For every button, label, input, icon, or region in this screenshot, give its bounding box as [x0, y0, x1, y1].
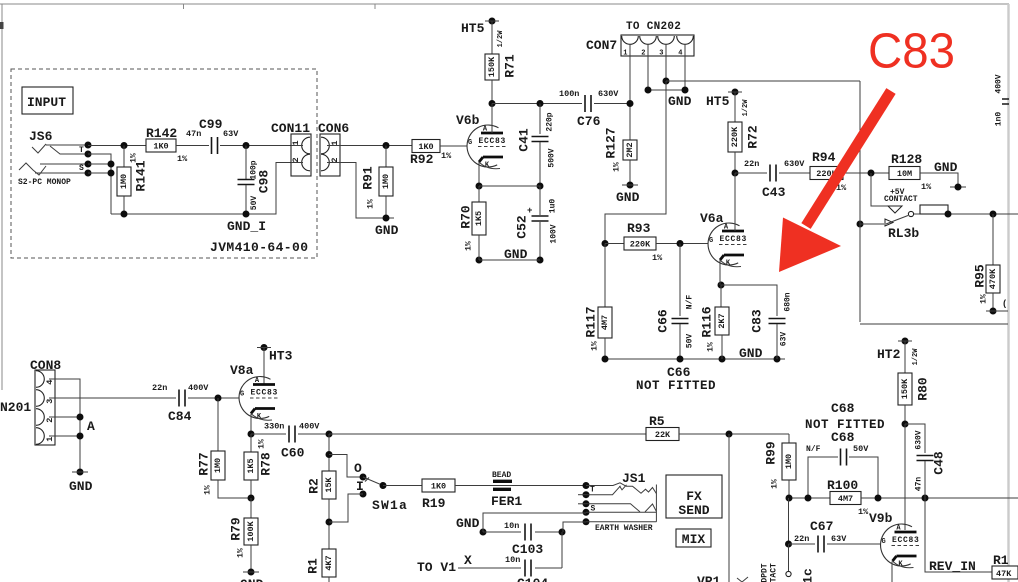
svg-text:4: 4 [45, 380, 55, 385]
svg-text:BEAD: BEAD [492, 471, 511, 480]
svg-text:HT2: HT2 [877, 347, 901, 362]
svg-text:G: G [709, 237, 713, 245]
svg-text:1M0: 1M0 [213, 458, 223, 473]
svg-text:1%: 1% [177, 154, 188, 164]
svg-text:2M2: 2M2 [625, 142, 635, 157]
svg-text:JVM410-64-00: JVM410-64-00 [210, 240, 308, 255]
svg-text:R1: R1 [306, 558, 321, 574]
svg-text:JS1: JS1 [622, 471, 646, 486]
svg-text:GND: GND [375, 223, 399, 238]
svg-text:220p: 220p [546, 112, 555, 131]
svg-text:GND: GND [240, 577, 264, 582]
svg-text:N/F: N/F [806, 445, 821, 454]
svg-text:CONTACT: CONTACT [884, 195, 918, 204]
svg-text:R19: R19 [422, 496, 446, 511]
svg-text:S: S [79, 164, 84, 173]
svg-text:C66: C66 [667, 365, 691, 380]
svg-text:63V: 63V [780, 332, 789, 347]
svg-text:400V: 400V [995, 74, 1004, 93]
svg-text:1%: 1% [237, 548, 246, 558]
svg-text:C76: C76 [577, 114, 601, 129]
svg-text:1%: 1% [258, 439, 267, 449]
svg-text:GND: GND [616, 190, 640, 205]
svg-text:150K: 150K [487, 56, 497, 77]
svg-text:1c: 1c [801, 568, 816, 582]
svg-text:1: 1 [330, 140, 340, 145]
svg-text:3: 3 [45, 399, 55, 404]
svg-text:HT5: HT5 [706, 94, 730, 109]
svg-text:400V: 400V [188, 383, 209, 393]
svg-text:C68: C68 [831, 430, 855, 445]
svg-text:1K5: 1K5 [246, 458, 256, 473]
svg-text:C104: C104 [517, 576, 548, 582]
svg-text:1/2W: 1/2W [912, 348, 920, 366]
svg-text:R2: R2 [307, 478, 322, 494]
svg-text:GND: GND [668, 94, 692, 109]
svg-text:4M7: 4M7 [600, 315, 610, 330]
svg-text:1%: 1% [367, 199, 376, 209]
svg-text:O: O [354, 461, 362, 476]
svg-text:2: 2 [641, 50, 645, 58]
svg-text:R72: R72 [746, 125, 761, 149]
svg-text:22K: 22K [655, 430, 671, 440]
svg-text:JS6: JS6 [29, 129, 53, 144]
svg-text:10n: 10n [504, 521, 519, 531]
svg-text:VR1: VR1 [697, 574, 721, 582]
svg-text:4: 4 [678, 50, 682, 58]
svg-text:GND: GND [934, 160, 958, 175]
svg-text:N201: N201 [0, 400, 31, 415]
svg-text:SW1a: SW1a [372, 498, 408, 513]
svg-text:630V: 630V [784, 159, 805, 169]
svg-text:63V: 63V [223, 129, 239, 139]
svg-text:C98: C98 [257, 170, 272, 194]
svg-text:R99: R99 [764, 441, 779, 465]
svg-text:47n: 47n [915, 477, 924, 492]
svg-text:330n: 330n [264, 422, 284, 432]
svg-text:47K: 47K [996, 569, 1012, 579]
svg-text:V6b: V6b [456, 113, 480, 128]
svg-text:100V: 100V [550, 224, 559, 243]
svg-text:R78: R78 [259, 452, 274, 476]
svg-text:4K7: 4K7 [324, 555, 334, 570]
svg-text:R94: R94 [812, 150, 836, 165]
svg-text:G: G [882, 538, 886, 546]
svg-text:1%: 1% [130, 153, 139, 163]
svg-text:C103: C103 [512, 542, 543, 557]
svg-text:1M0: 1M0 [119, 174, 129, 189]
svg-text:2: 2 [330, 157, 340, 162]
svg-text:C41: C41 [517, 128, 532, 152]
svg-text:1%: 1% [591, 341, 600, 351]
svg-text:A: A [87, 419, 95, 434]
svg-text:MIX: MIX [682, 532, 706, 547]
svg-text:SEND: SEND [678, 503, 709, 518]
svg-text:X: X [464, 553, 472, 568]
svg-text:1K0: 1K0 [418, 142, 433, 152]
svg-text:1n0: 1n0 [995, 112, 1004, 127]
svg-text:HT5: HT5 [461, 21, 485, 36]
svg-text:630V: 630V [598, 89, 619, 99]
svg-text:1%: 1% [980, 294, 989, 304]
svg-text:R71: R71 [503, 54, 518, 78]
svg-text:R70: R70 [459, 205, 474, 229]
svg-text:2: 2 [45, 418, 55, 423]
svg-text:C43: C43 [762, 185, 786, 200]
svg-text:DPDT: DPDT [761, 563, 770, 582]
svg-text:V9b: V9b [869, 511, 893, 526]
svg-text:FER1: FER1 [491, 494, 522, 509]
svg-text:+: + [527, 206, 532, 216]
svg-text:1%: 1% [465, 241, 474, 251]
svg-text:GND: GND [739, 346, 763, 361]
svg-text:C52: C52 [515, 215, 530, 239]
svg-text:100n: 100n [559, 89, 579, 99]
svg-text:50V: 50V [853, 444, 869, 454]
svg-text:R79: R79 [229, 517, 244, 541]
svg-text:470K: 470K [988, 268, 998, 289]
svg-text:GND: GND [69, 479, 93, 494]
svg-text:R93: R93 [627, 221, 651, 236]
svg-text:GND: GND [456, 516, 480, 531]
svg-text:R100: R100 [827, 478, 858, 493]
svg-text:R127: R127 [604, 127, 619, 158]
svg-text:N/F: N/F [686, 295, 695, 310]
svg-text:C68: C68 [831, 401, 855, 416]
svg-text:C83: C83 [750, 309, 765, 333]
svg-text:4M7: 4M7 [838, 494, 853, 504]
svg-text:R142: R142 [146, 126, 177, 141]
svg-text:500V: 500V [548, 148, 557, 167]
svg-text:C60: C60 [281, 446, 305, 461]
svg-text:15K: 15K [324, 476, 334, 492]
svg-text:EARTH WASHER: EARTH WASHER [595, 524, 653, 533]
svg-text:63V: 63V [831, 534, 847, 544]
svg-text:TO V1: TO V1 [417, 560, 456, 575]
svg-text:2K7: 2K7 [717, 313, 727, 328]
svg-text:RL3b: RL3b [888, 226, 919, 241]
svg-text:R141: R141 [134, 160, 149, 191]
svg-text:R128: R128 [891, 152, 922, 167]
svg-text:GND: GND [504, 247, 528, 262]
svg-text:V6a: V6a [700, 211, 724, 226]
svg-text:G: G [240, 391, 244, 399]
svg-text:100K: 100K [246, 520, 256, 541]
svg-text:R77: R77 [197, 452, 212, 475]
svg-text:TO CN202: TO CN202 [626, 21, 681, 33]
svg-text:1M0: 1M0 [381, 174, 391, 189]
svg-text:V8a: V8a [230, 363, 254, 378]
svg-text:1/2W: 1/2W [497, 30, 505, 48]
svg-text:3: 3 [659, 50, 663, 58]
svg-text:220K: 220K [730, 126, 740, 147]
svg-text:C48: C48 [932, 451, 947, 475]
svg-text:1: 1 [291, 140, 301, 145]
svg-text:150K: 150K [900, 378, 910, 399]
svg-text:GND_I: GND_I [227, 219, 266, 234]
svg-text:HT3: HT3 [269, 349, 293, 364]
svg-text:C83: C83 [868, 24, 955, 79]
svg-text:50V: 50V [250, 196, 259, 211]
svg-text:1%: 1% [771, 479, 780, 489]
svg-text:R116: R116 [700, 306, 715, 337]
svg-text:G: G [468, 139, 472, 147]
svg-text:FX: FX [686, 489, 702, 504]
svg-text:C99: C99 [199, 117, 223, 132]
svg-text:1%: 1% [707, 342, 716, 352]
svg-text:680n: 680n [784, 292, 793, 311]
svg-text:T: T [590, 486, 595, 495]
svg-text:C84: C84 [168, 409, 192, 424]
svg-text:CONTACT: CONTACT [770, 563, 779, 582]
svg-text:10M: 10M [897, 169, 912, 179]
svg-text:1K0: 1K0 [431, 482, 446, 492]
svg-text:1%: 1% [204, 485, 213, 495]
svg-text:1%: 1% [858, 507, 869, 517]
svg-text:CON7: CON7 [586, 38, 617, 53]
svg-text:R80: R80 [916, 377, 931, 401]
svg-text:R92: R92 [410, 152, 434, 167]
svg-text:1K5: 1K5 [474, 211, 484, 226]
svg-text:50V: 50V [686, 334, 695, 349]
svg-text:22n: 22n [152, 383, 167, 393]
svg-text:1%: 1% [613, 162, 622, 172]
svg-text:C66: C66 [656, 309, 671, 333]
svg-text:(: ( [1002, 299, 1007, 309]
svg-text:C67: C67 [810, 519, 833, 534]
svg-text:1: 1 [623, 50, 627, 58]
svg-text:ECC83: ECC83 [479, 137, 507, 146]
svg-text:ECC83: ECC83 [892, 536, 920, 545]
svg-text:630V: 630V [915, 430, 924, 449]
svg-text:1M0: 1M0 [784, 454, 794, 469]
svg-text:1/2W: 1/2W [742, 99, 750, 117]
svg-text:220K: 220K [630, 240, 651, 250]
svg-text:47n: 47n [186, 129, 201, 139]
svg-text:400V: 400V [299, 422, 320, 432]
svg-text:1: 1 [45, 437, 55, 442]
svg-text:R117: R117 [584, 306, 599, 337]
svg-text:1K0: 1K0 [153, 142, 168, 152]
svg-text:22n: 22n [744, 159, 759, 169]
svg-text:22n: 22n [794, 534, 809, 544]
svg-text:R95: R95 [973, 264, 988, 288]
svg-text:ECC83: ECC83 [251, 389, 279, 398]
svg-text:NOT FITTED: NOT FITTED [636, 379, 716, 393]
svg-text:2: 2 [291, 157, 301, 162]
svg-text:ECC83: ECC83 [720, 235, 748, 244]
svg-text:T: T [79, 146, 84, 155]
svg-text:S2-PC MONOP: S2-PC MONOP [18, 178, 71, 187]
svg-text:1u0: 1u0 [549, 199, 558, 214]
svg-text:R5: R5 [649, 414, 665, 429]
svg-text:1%: 1% [652, 253, 663, 263]
svg-text:INPUT: INPUT [27, 95, 66, 110]
svg-text:R91: R91 [361, 166, 376, 190]
svg-text:1%: 1% [921, 182, 932, 192]
svg-text:1%: 1% [441, 151, 452, 161]
